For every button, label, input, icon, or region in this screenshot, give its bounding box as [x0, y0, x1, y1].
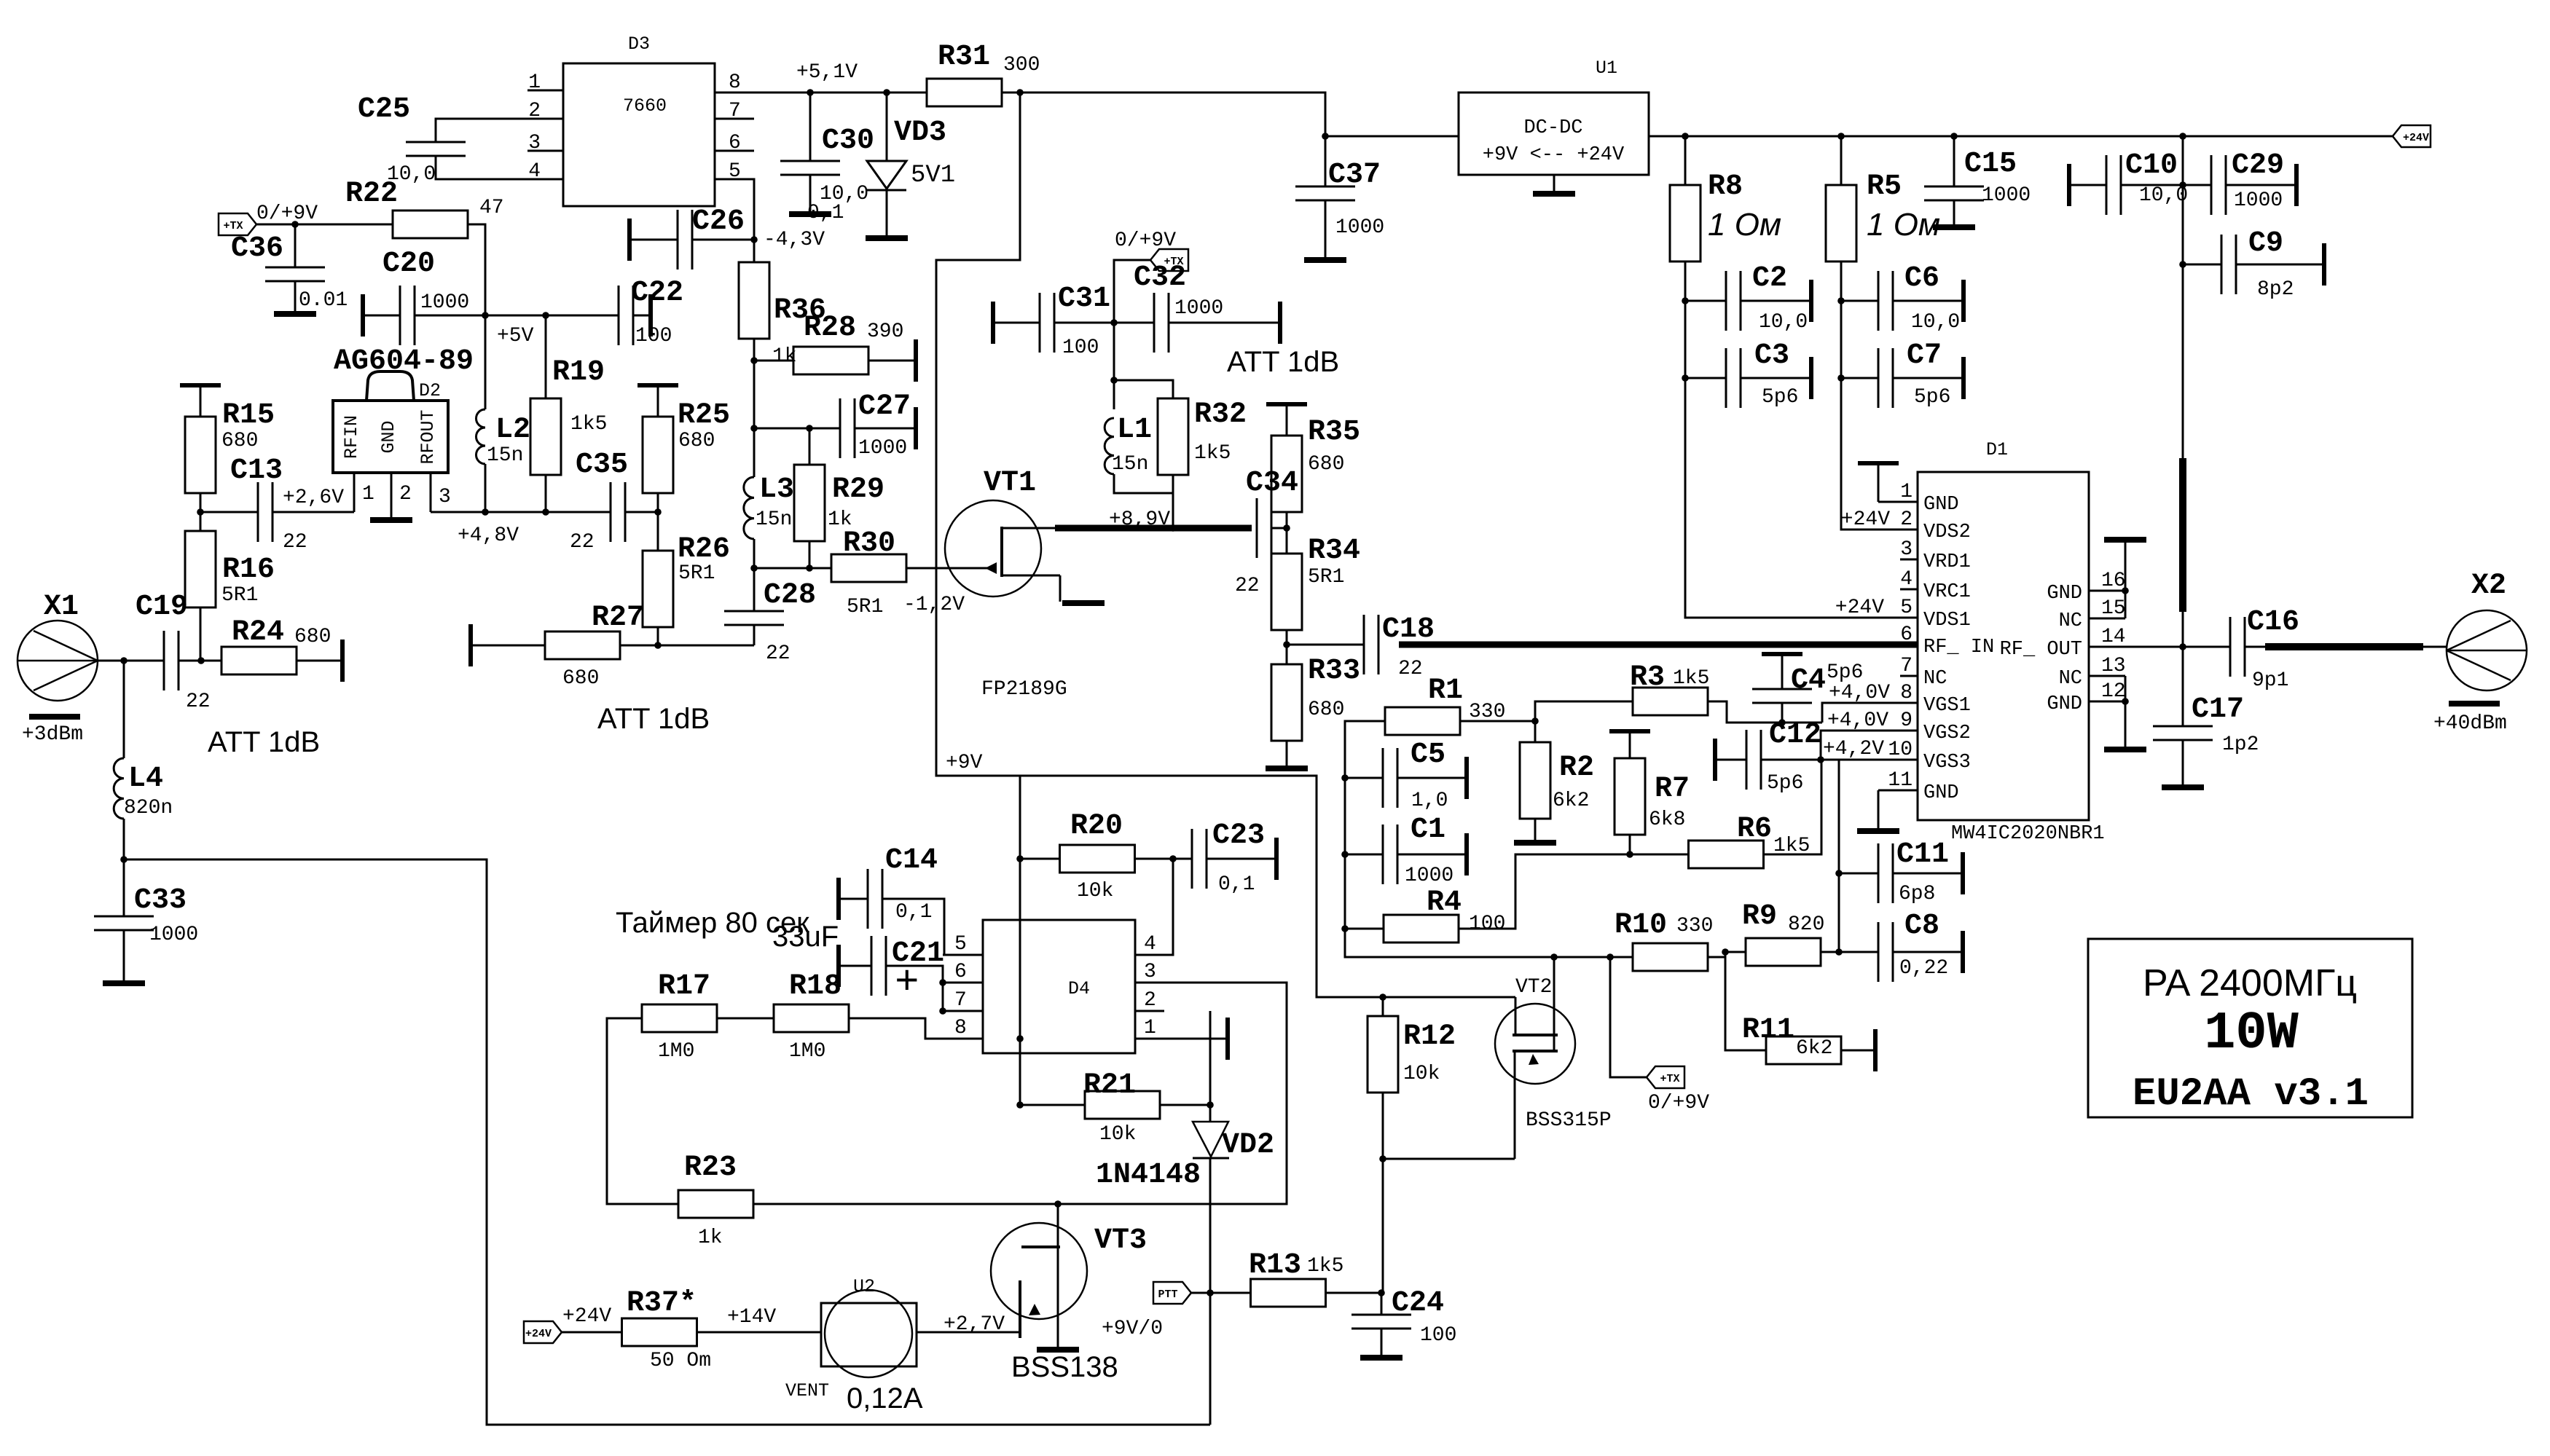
svg-text:1k5: 1k5 [1307, 1255, 1343, 1278]
capacitor C13 [258, 482, 272, 542]
junction R9/R11 node [1722, 948, 1729, 956]
wire R33 top stub [1286, 645, 1288, 664]
C26 left terminal [627, 219, 632, 261]
thick microstrip to X2 [2265, 643, 2423, 650]
svg-text:U2: U2 [853, 1276, 875, 1297]
svg-text:-1,2V: -1,2V [903, 594, 965, 616]
wire C34 to R35/R34 node [1271, 527, 1287, 530]
junction R1/R2 [1531, 717, 1539, 725]
junction VT2 drain tap [1550, 953, 1558, 961]
svg-text:7660: 7660 [623, 95, 667, 117]
resistor R16 [185, 531, 216, 607]
wire R10 to R9 [1708, 952, 1746, 957]
capacitor C17 [2182, 647, 2184, 726]
svg-text:820n: 820n [124, 797, 173, 819]
svg-text:VRD1: VRD1 [1923, 551, 1971, 573]
svg-text:-4,3V: -4,3V [764, 229, 825, 251]
svg-text:C37: C37 [1328, 159, 1381, 192]
inductor L4 [114, 758, 124, 819]
wire R3 right jog [1708, 701, 1822, 723]
svg-text:16: 16 [2101, 570, 2126, 592]
svg-text:8p2: 8p2 [2257, 278, 2294, 301]
IC D4 timer [983, 920, 1135, 1053]
svg-text:C3: C3 [1754, 339, 1789, 372]
junction VD3 tap [883, 89, 890, 96]
wire rail into U1 [1325, 135, 1459, 138]
wire R5 bottom to pin2 riser [1841, 261, 1918, 530]
junction C11 tap [1835, 870, 1843, 877]
svg-text:C31: C31 [1058, 283, 1110, 315]
C30 plates [780, 161, 840, 175]
svg-text:+4,8V: +4,8V [458, 524, 519, 547]
svg-text:R27: R27 [592, 602, 644, 634]
svg-text:1 Ом: 1 Ом [1708, 207, 1781, 243]
capacitor C1 [1383, 825, 1397, 884]
connector X1 [17, 621, 98, 701]
capacitor C23 [1192, 829, 1207, 889]
svg-text:5p6: 5p6 [1827, 661, 1863, 684]
ground under U1 [1533, 191, 1575, 197]
junction R20/C23/pin4 [1169, 855, 1177, 862]
svg-text:R23: R23 [684, 1152, 737, 1184]
svg-text:C19: C19 [136, 591, 188, 623]
wire R23 right to VT3/pin3 [754, 983, 1287, 1204]
svg-text:D1: D1 [1986, 439, 2008, 460]
wire C35 to R25/R26 node [625, 511, 658, 513]
svg-text:R33: R33 [1308, 655, 1360, 688]
svg-text:R7: R7 [1655, 773, 1690, 806]
svg-text:330: 330 [1676, 915, 1713, 937]
svg-text:R12: R12 [1403, 1020, 1456, 1053]
resistor R32 [1158, 398, 1188, 475]
svg-text:5p6: 5p6 [1767, 772, 1803, 795]
amplifier D2 AG604-89 [333, 401, 448, 473]
wire L3/R29 to R30 [754, 567, 831, 570]
junction C9 tap [2179, 261, 2186, 268]
wire R33 bottom stub [1286, 741, 1288, 767]
junction R15/R16/C13 [197, 508, 204, 516]
junction VGS node [1817, 756, 1824, 763]
wire to R28 [754, 360, 793, 362]
resistor R26 [643, 551, 673, 627]
wire L4 to C33 node [123, 819, 125, 859]
svg-text:R19: R19 [552, 356, 605, 389]
wire to C11 [1839, 873, 1878, 875]
junction C21/pin7 [939, 1007, 946, 1015]
svg-text:GND: GND [378, 420, 399, 453]
svg-text:+5V: +5V [497, 325, 534, 347]
svg-text:ATT 1dB: ATT 1dB [597, 703, 710, 735]
wire R37 to U2 [698, 1331, 821, 1334]
resistor R29 [794, 465, 825, 541]
svg-text:15n: 15n [756, 508, 792, 531]
wire R22 right down to +5V node [468, 224, 485, 315]
capacitor C2 [1726, 271, 1741, 331]
svg-text:NC: NC [2059, 610, 2082, 632]
svg-text:+8,9V: +8,9V [1109, 508, 1170, 531]
junction R19 bottom [542, 508, 549, 516]
svg-text:+5,1V: +5,1V [796, 61, 858, 84]
junction pin12 [2122, 698, 2129, 705]
svg-text:C11: C11 [1896, 838, 1949, 871]
capacitor C5 [1383, 748, 1397, 808]
svg-text:NC: NC [2059, 668, 2082, 690]
capacitor C18 [1364, 615, 1378, 674]
wire bias line to R10 [1345, 956, 1633, 959]
C29 plates [2211, 155, 2226, 215]
ground under VD3 [866, 235, 908, 241]
capacitor C34 [1257, 498, 1271, 558]
svg-text:300: 300 [1003, 54, 1040, 76]
C29 right terminal [2294, 164, 2299, 206]
wire R27 left lead [471, 645, 545, 647]
C11 plates [1878, 843, 1893, 903]
resistor R34 [1271, 554, 1302, 630]
junction RF_OUT node [2179, 643, 2186, 650]
wire +5V node to R19 top [485, 315, 546, 317]
svg-text:6: 6 [1900, 623, 1912, 646]
C31 plates [1040, 293, 1054, 353]
svg-text:C8: C8 [1904, 910, 1939, 943]
svg-text:1k5: 1k5 [1673, 667, 1709, 690]
wire to C6 [1841, 300, 1878, 302]
pin 1 terminal of D4 [1164, 1038, 1226, 1040]
resistor R31 [927, 79, 1002, 106]
wire to C9 [2183, 264, 2221, 266]
C24 plates [1351, 1315, 1411, 1329]
svg-text:0,1: 0,1 [895, 901, 932, 924]
wire R35 top stub [1286, 404, 1288, 436]
wire R2 top stub [1534, 721, 1537, 742]
svg-text:680: 680 [562, 667, 599, 690]
inductor L1 [1105, 418, 1114, 474]
terminal bar above R25 [637, 383, 678, 387]
wire R15 top stub [200, 385, 202, 417]
wire to C5 [1345, 777, 1383, 779]
wire to X2 [2245, 646, 2265, 648]
svg-text:C13: C13 [230, 454, 283, 487]
capacitor C30 [809, 93, 812, 161]
wire R27 to junction [620, 645, 658, 647]
C12 left terminal [1713, 739, 1717, 781]
C5 right terminal [1464, 757, 1469, 799]
svg-text:VRC1: VRC1 [1923, 581, 1971, 603]
svg-text:6k2: 6k2 [1553, 790, 1589, 812]
svg-text:L1: L1 [1117, 414, 1152, 446]
junction C37 tap [1322, 133, 1329, 140]
terminal bar above R15 [180, 383, 221, 387]
resistor R1 [1385, 707, 1460, 735]
zener diode VD3 5V1 [886, 93, 888, 161]
svg-text:7: 7 [954, 989, 967, 1012]
junction R8 tap [1682, 133, 1689, 140]
svg-text:10k: 10k [1099, 1123, 1136, 1146]
D3 right pin numbers 8,7,6,5 [729, 71, 741, 183]
resistor R24 [221, 647, 297, 674]
D4 pin stubs right 4-1 [1135, 955, 1164, 1039]
svg-text:1k5: 1k5 [570, 413, 607, 436]
svg-text:R30: R30 [843, 527, 895, 560]
svg-text:680: 680 [1308, 699, 1344, 721]
svg-text:C9: C9 [2248, 227, 2283, 260]
net flag +TX (final bias) [1647, 1066, 1684, 1088]
svg-text:VGS3: VGS3 [1923, 752, 1971, 774]
wire +24V rail [1649, 135, 2393, 138]
svg-text:680: 680 [294, 626, 331, 648]
svg-text:1000: 1000 [1405, 865, 1453, 887]
svg-text:R34: R34 [1308, 535, 1360, 567]
junction R35/R34/C34 [1283, 524, 1290, 532]
junction L3/C27 node [750, 425, 758, 432]
wire R29 top stub [809, 428, 811, 465]
svg-text:C12: C12 [1769, 719, 1821, 752]
junction R21 left [1016, 1101, 1024, 1109]
svg-text:VGS2: VGS2 [1923, 723, 1971, 744]
svg-text:1: 1 [362, 483, 374, 505]
svg-text:RF_ OUT: RF_ OUT [2000, 639, 2082, 661]
svg-text:22: 22 [186, 690, 211, 713]
C2 right terminal [1809, 280, 1813, 322]
svg-text:8: 8 [729, 71, 741, 94]
wire C21 to D4 pins6,7 [886, 966, 943, 1011]
wire PTT loop bottom [124, 859, 1210, 1425]
svg-text:EU2AA v3.1: EU2AA v3.1 [2133, 1072, 2369, 1117]
ground under D2 pin2 [370, 517, 412, 523]
svg-text:+3dBm: +3dBm [22, 723, 83, 746]
C20 left terminal [361, 294, 365, 337]
terminal above D1 pin1 [1858, 461, 1899, 465]
wire R29 bottom stub [809, 540, 811, 568]
svg-text:C17: C17 [2192, 693, 2244, 726]
svg-text:1: 1 [1900, 481, 1912, 503]
svg-text:GND: GND [1923, 494, 1959, 516]
svg-text:VT1: VT1 [984, 467, 1036, 500]
C36 plates [265, 267, 325, 281]
junction R7 bottom [1626, 851, 1633, 858]
wire U2 to VT3 gate [917, 1331, 1020, 1334]
wire junction to C16 [2183, 646, 2230, 648]
svg-text:R25: R25 [678, 399, 730, 432]
D1 left pin labels [1923, 494, 1994, 804]
svg-text:+2,6V: +2,6V [283, 487, 344, 509]
svg-text:C25: C25 [358, 93, 410, 126]
svg-text:+24V: +24V [1835, 597, 1884, 619]
terminal bar above R35 [1266, 402, 1307, 406]
svg-text:R3: R3 [1630, 661, 1665, 694]
wire R12 top stub [1382, 997, 1384, 1016]
svg-text:6: 6 [954, 961, 967, 983]
svg-text:1p2: 1p2 [2222, 733, 2259, 756]
D3 left pin numbers 1-4 [528, 71, 541, 183]
svg-text:7: 7 [1900, 655, 1912, 677]
svg-text:C14: C14 [885, 844, 938, 877]
C20 plates [400, 286, 415, 345]
svg-text:R10: R10 [1615, 909, 1667, 942]
wire R12 bottom to R13 node [1382, 1093, 1384, 1293]
resistor R19 [530, 398, 561, 475]
svg-text:6k8: 6k8 [1649, 808, 1685, 831]
wire +TX3 branch [1610, 957, 1647, 1077]
svg-text:C33: C33 [134, 884, 187, 917]
wire R15 to R16 [200, 493, 202, 532]
junction R13/C24 [1378, 1289, 1385, 1296]
capacitor C33 [123, 859, 125, 916]
resistor R17 [642, 1004, 717, 1032]
wire C19 to R24 node [178, 660, 221, 662]
C10 left terminal [2067, 164, 2071, 206]
wire to D1 pin9 [1821, 731, 1918, 760]
svg-text:R15: R15 [222, 399, 275, 432]
wire R7 top stub [1629, 731, 1631, 758]
ground above D1 pin16 [2104, 537, 2146, 543]
wire R32 bottom to drain line [1172, 474, 1174, 528]
svg-text:1000: 1000 [1982, 184, 2031, 207]
wire PTT to node [1191, 1292, 1210, 1294]
svg-text:10: 10 [1888, 739, 1912, 761]
svg-text:R31: R31 [938, 41, 990, 74]
svg-text:R6: R6 [1737, 813, 1772, 846]
wire to C1 [1345, 854, 1383, 856]
ground under C36 [274, 311, 316, 317]
wire U1 ground stub [1553, 175, 1555, 192]
wire R11 right lead [1841, 1050, 1874, 1052]
svg-text:10W: 10W [2204, 1004, 2299, 1063]
resistor R9 [1746, 938, 1821, 966]
D3 pin stubs right [715, 119, 754, 151]
junction C2 tap [1682, 297, 1689, 304]
junction +TX3 tap [1606, 953, 1614, 961]
resistor R33 [1271, 664, 1302, 741]
junction C36 tap [291, 221, 299, 228]
svg-text:VGS1: VGS1 [1923, 695, 1971, 717]
capacitor C24 [1381, 1293, 1383, 1315]
svg-text:RFIN: RFIN [341, 415, 362, 459]
fan U2 VENT [821, 1290, 917, 1377]
wire D3 pin4 to C25 bottom [436, 156, 563, 179]
junction C6 tap [1837, 297, 1845, 304]
ground under C33 [103, 980, 145, 986]
ground under D1 pin11 [1857, 828, 1899, 834]
svg-text:C7: C7 [1907, 339, 1942, 372]
C9 right terminal [2322, 243, 2326, 286]
svg-text:1M0: 1M0 [658, 1040, 694, 1063]
C37 plates [1295, 186, 1355, 200]
junction R12/VT2 source [1379, 1155, 1386, 1162]
svg-text:1000: 1000 [2234, 189, 2283, 212]
svg-text:13: 13 [2101, 655, 2126, 677]
resistor R37 [622, 1318, 697, 1346]
D1 right pin stubs [2089, 591, 2125, 701]
svg-text:1: 1 [1144, 1017, 1156, 1039]
C15 plates [1924, 186, 1984, 200]
resistor R27 [545, 631, 620, 659]
wire R31 to corner above U1 [1002, 93, 1325, 136]
wire R34 top [1286, 528, 1288, 554]
svg-text:VT3: VT3 [1094, 1224, 1147, 1257]
svg-text:1: 1 [528, 71, 541, 94]
wire +TX to R22 [256, 224, 393, 226]
D2 pin numbers 1 2 3 [362, 483, 451, 508]
svg-text:R35: R35 [1308, 416, 1360, 449]
capacitor C7 [1878, 348, 1893, 408]
svg-text:C5: C5 [1411, 739, 1445, 771]
C4 plates [1752, 689, 1812, 703]
C33 plates [94, 916, 154, 930]
svg-text:9p1: 9p1 [2252, 669, 2288, 692]
svg-text:C20: C20 [382, 248, 435, 280]
D1 pins 16/15 ground [2125, 542, 2127, 618]
net flag +TX (driver bias) [1150, 249, 1188, 271]
wire node to C18 [1287, 644, 1364, 646]
wire R36 node down to C27 node [753, 361, 756, 428]
C21 plates [871, 936, 886, 996]
svg-text:C16: C16 [2247, 606, 2299, 639]
resistor R2 [1520, 742, 1550, 819]
svg-text:C29: C29 [2232, 149, 2284, 182]
ground under D1 pin12 [2104, 747, 2146, 752]
C6 right terminal [1961, 280, 1966, 322]
ground under C30 [789, 211, 831, 217]
svg-text:+TX: +TX [1660, 1073, 1679, 1085]
resistor R23 [678, 1190, 753, 1218]
svg-text:+2,7V: +2,7V [943, 1313, 1005, 1336]
C17 plates [2153, 726, 2213, 740]
junction L3 bottom [750, 564, 758, 572]
svg-text:2: 2 [1144, 989, 1156, 1012]
svg-text:C35: C35 [576, 449, 628, 481]
net flag +TX input [219, 213, 256, 235]
resistor R25 [643, 417, 673, 493]
svg-text:4: 4 [1144, 933, 1156, 956]
capacitor C6 [1878, 271, 1893, 331]
resistor R6 [1689, 841, 1764, 868]
C16 plates [2230, 617, 2245, 677]
svg-text:C30: C30 [822, 125, 874, 157]
junction C4 tap [1778, 719, 1786, 726]
wire output riser thin top [2182, 136, 2184, 458]
ground under R33 [1266, 766, 1308, 771]
svg-text:C32: C32 [1134, 261, 1186, 294]
wire C31 node to C32 [1114, 322, 1154, 324]
svg-text:GND: GND [1923, 782, 1959, 804]
D4 pin stubs left 5-8 [943, 955, 983, 1039]
resistor R18 [774, 1004, 849, 1032]
svg-text:6: 6 [729, 132, 741, 154]
wire R20 right [1134, 858, 1192, 860]
wire to C29 [2183, 184, 2211, 186]
resistor R8 [1670, 185, 1700, 261]
svg-text:R32: R32 [1194, 398, 1247, 431]
svg-text:9: 9 [1900, 709, 1912, 732]
junction L1/R32 on drain line [1169, 524, 1177, 532]
C7 right terminal [1961, 357, 1966, 399]
ground under X1 [29, 714, 80, 720]
DC-DC converter U1 [1459, 93, 1649, 175]
svg-text:1000: 1000 [1174, 297, 1223, 320]
ground under C37 [1304, 257, 1346, 263]
C10 plates [2106, 155, 2121, 215]
svg-text:3: 3 [528, 132, 541, 154]
D1 right pin numbers [2101, 570, 2126, 703]
svg-text:X2: X2 [2471, 570, 2506, 602]
C22 right terminal [648, 294, 653, 337]
junction C31/C32 node [1110, 319, 1118, 326]
svg-text:C36: C36 [231, 232, 283, 265]
wire X1 to C19 [98, 660, 164, 662]
junction C7 tap [1837, 374, 1845, 382]
svg-text:C2: C2 [1752, 262, 1787, 295]
svg-text:330: 330 [1469, 701, 1505, 723]
